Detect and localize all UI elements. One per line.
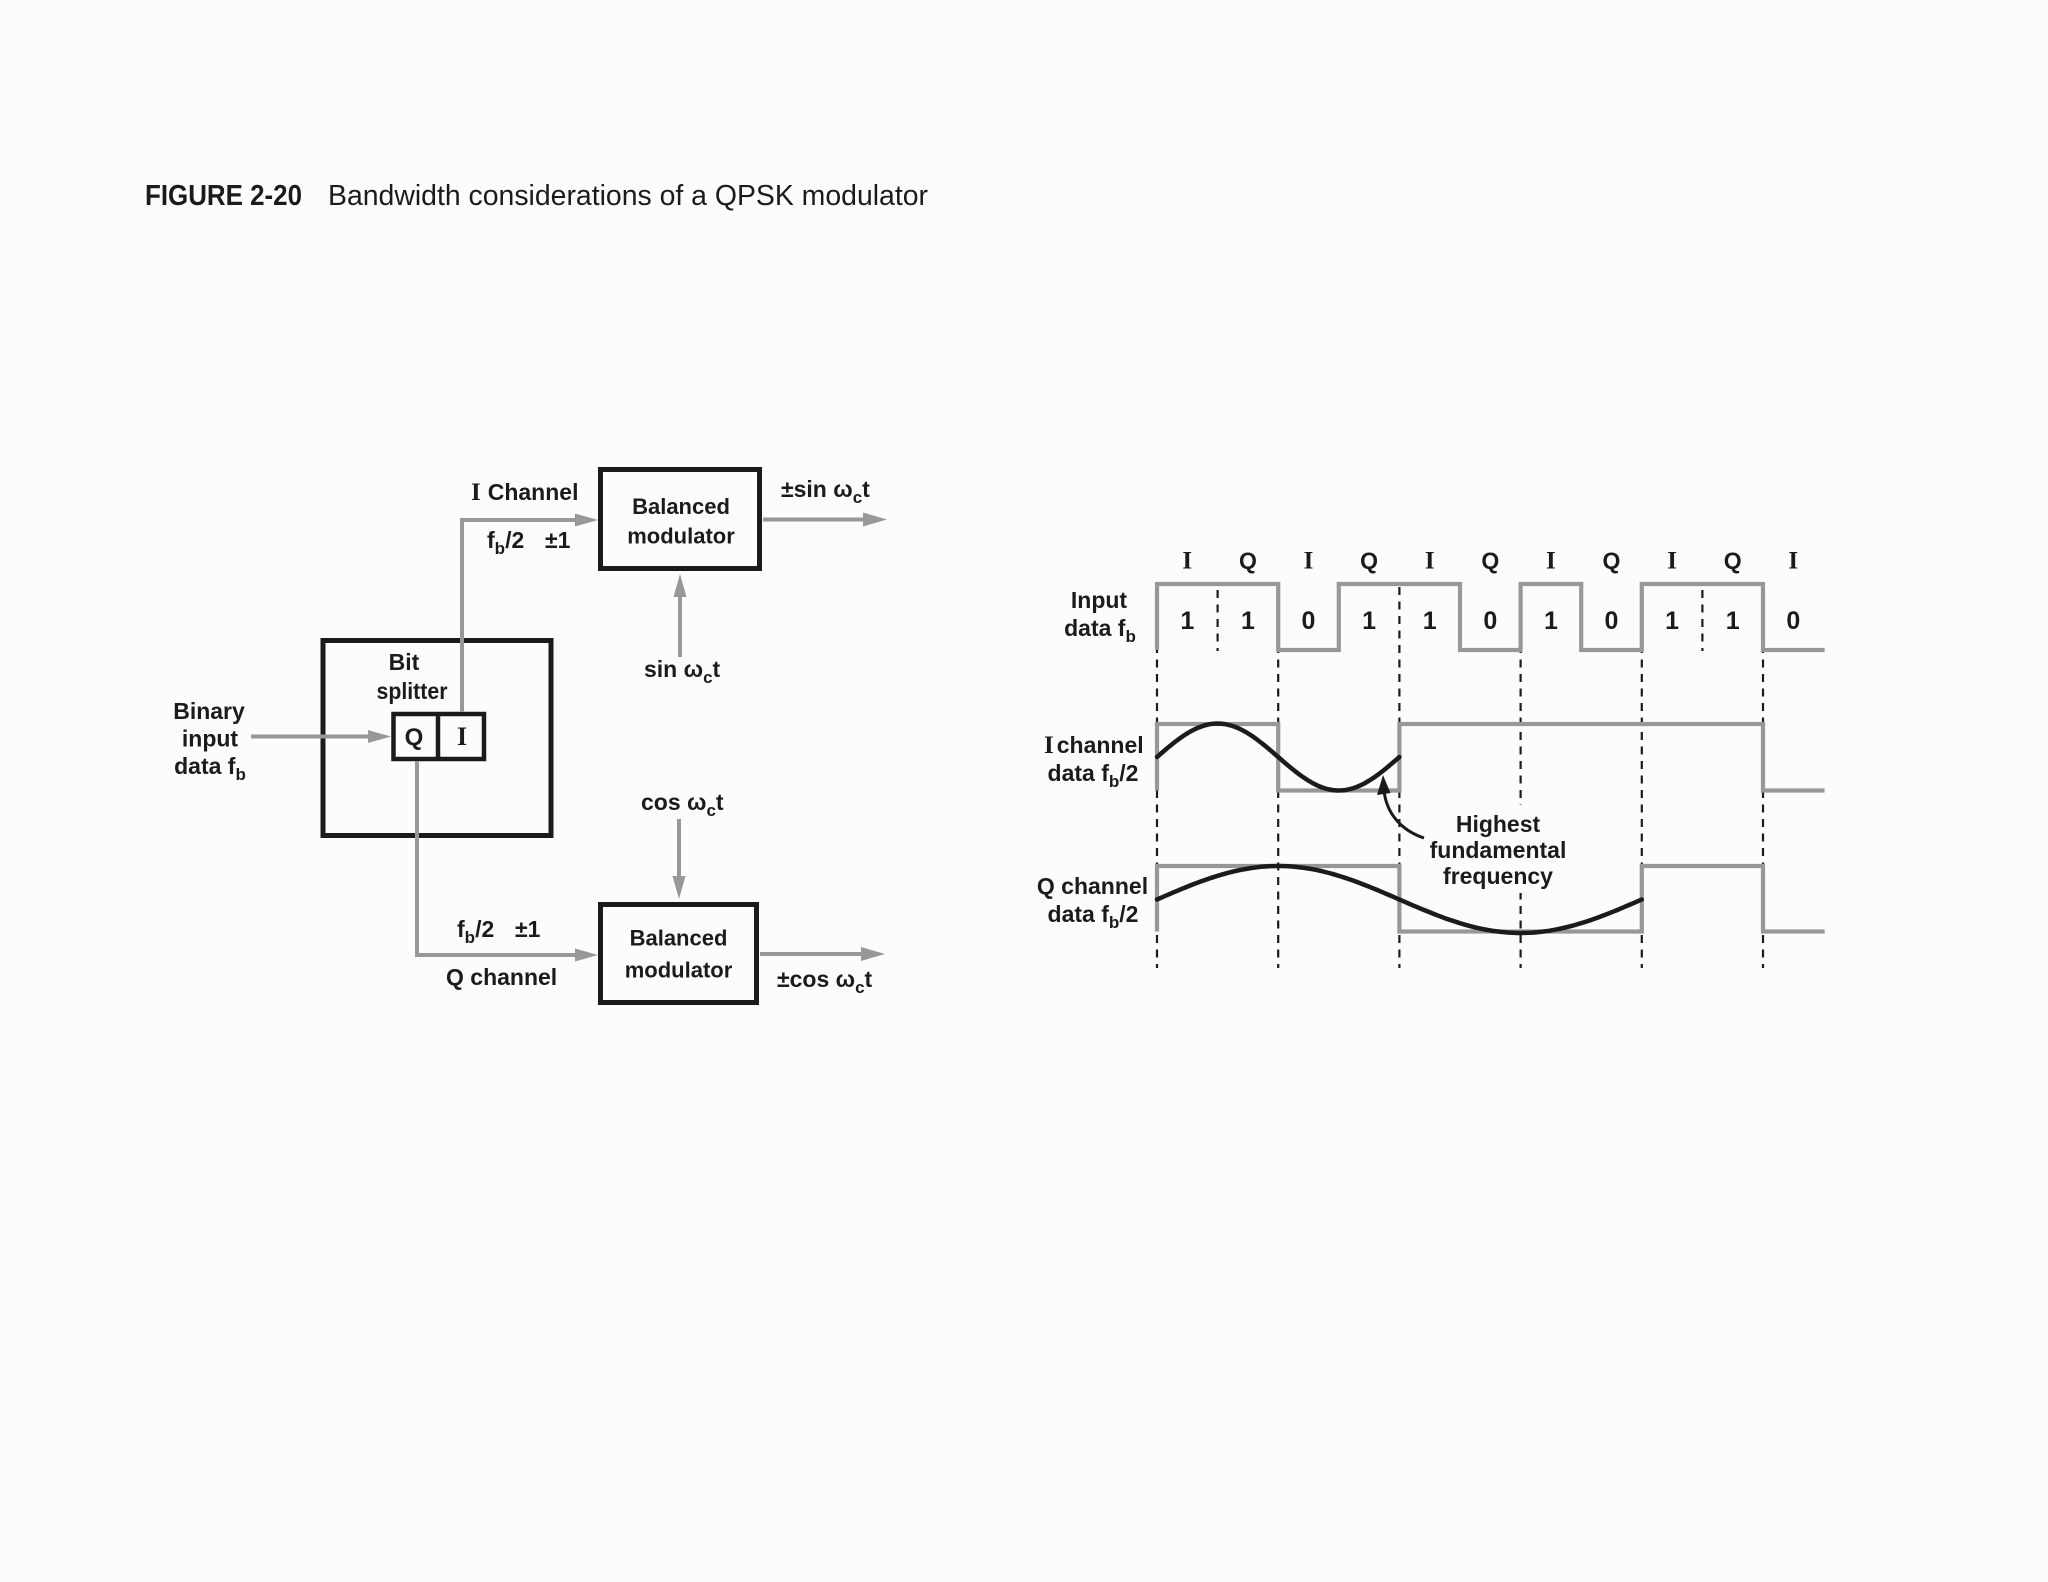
I/Q bit-slot letters xyxy=(1182,548,1798,575)
block diagram labels xyxy=(173,476,872,997)
pointer arrow to highest fundamental frequency xyxy=(1384,790,1424,838)
svg-text:I: I xyxy=(1304,548,1314,575)
svg-text:fundamental: fundamental xyxy=(1430,837,1567,863)
svg-text:I: I xyxy=(457,722,467,751)
binary input wire xyxy=(251,735,369,739)
svg-text:modulator: modulator xyxy=(625,958,733,983)
short dashed divider t9 xyxy=(1701,590,1703,651)
lower balanced modulator box U2 xyxy=(601,905,757,1003)
svg-text:1: 1 xyxy=(1362,607,1376,635)
svg-text:1: 1 xyxy=(1180,607,1194,635)
sin carrier wire xyxy=(678,593,682,657)
short dashed divider t1 xyxy=(1216,590,1218,651)
svg-text:1: 1 xyxy=(1423,607,1437,635)
dashed grid line t6 xyxy=(1519,587,1521,968)
Q channel arrowhead xyxy=(575,949,598,962)
svg-text:modulator: modulator xyxy=(627,524,735,549)
I channel fundamental sine xyxy=(1157,724,1399,791)
svg-text:Balanced: Balanced xyxy=(630,926,728,951)
Q channel fundamental sine xyxy=(1157,866,1642,933)
Q/I divider xyxy=(436,712,441,761)
svg-text:Binary: Binary xyxy=(173,698,245,724)
timing diagram row labels xyxy=(1037,587,1570,932)
svg-text:Q: Q xyxy=(1239,548,1257,574)
svg-text:Q: Q xyxy=(1603,548,1621,574)
upper output arrowhead xyxy=(863,513,887,527)
svg-text:1: 1 xyxy=(1544,607,1558,635)
svg-text:Bit: Bit xyxy=(389,649,420,675)
input data waveform xyxy=(1157,584,1825,650)
svg-text:I: I xyxy=(1788,548,1798,575)
svg-text:0: 0 xyxy=(1302,607,1316,635)
svg-text:I: I xyxy=(1425,548,1435,575)
I channel waveform xyxy=(1157,724,1825,791)
svg-text:splitter: splitter xyxy=(377,678,448,704)
dashed grid line t8 xyxy=(1641,587,1643,968)
label background mask xyxy=(1428,805,1570,893)
Q/I register box xyxy=(394,714,485,759)
svg-text:FIGURE 2-20: FIGURE 2-20 xyxy=(145,180,302,212)
svg-text:±1: ±1 xyxy=(545,527,571,553)
svg-text:Highest: Highest xyxy=(1456,811,1541,837)
svg-text:0: 0 xyxy=(1483,607,1497,635)
upper output wire xyxy=(763,518,864,522)
svg-text:frequency: frequency xyxy=(1443,863,1553,889)
svg-text:Q: Q xyxy=(1724,548,1742,574)
svg-text:Q: Q xyxy=(1481,548,1499,574)
svg-text:±1: ±1 xyxy=(515,916,541,942)
svg-text:1: 1 xyxy=(1241,607,1255,635)
lower output arrowhead xyxy=(861,947,885,961)
dashed grid line t10 xyxy=(1762,587,1764,968)
svg-text:0: 0 xyxy=(1786,607,1800,635)
svg-text:I: I xyxy=(1546,548,1556,575)
svg-text:Q channel: Q channel xyxy=(1037,873,1148,899)
svg-text:I: I xyxy=(1182,548,1192,575)
I channel wire xyxy=(462,520,575,712)
Q channel waveform xyxy=(1157,866,1825,932)
svg-text:I: I xyxy=(1667,548,1677,575)
svg-text:input: input xyxy=(182,726,239,752)
pointer arrowhead xyxy=(1377,775,1391,795)
dashed grid line t2 xyxy=(1277,587,1279,968)
svg-text:1: 1 xyxy=(1726,607,1740,635)
svg-text:IChannel: IChannel xyxy=(471,479,578,506)
svg-text:Bandwidth considerations of a: Bandwidth considerations of a QPSK modul… xyxy=(328,180,928,212)
cos carrier arrowhead xyxy=(673,876,686,899)
svg-text:1: 1 xyxy=(1665,607,1679,635)
cos carrier wire xyxy=(677,819,681,879)
svg-text:Q: Q xyxy=(405,724,424,751)
I channel arrowhead xyxy=(575,514,598,527)
svg-text:Ichannel: Ichannel xyxy=(1044,732,1144,759)
binary input arrowhead xyxy=(368,730,391,743)
svg-text:0: 0 xyxy=(1605,607,1619,635)
svg-text:Input: Input xyxy=(1071,587,1128,613)
bit value digits xyxy=(1180,607,1800,635)
upper balanced modulator box U1 xyxy=(601,470,760,569)
svg-text:Q channel: Q channel xyxy=(446,964,557,990)
Q channel wire xyxy=(417,761,575,955)
sin carrier arrowhead xyxy=(674,574,687,597)
dashed grid line t0 xyxy=(1156,587,1158,968)
svg-text:Balanced: Balanced xyxy=(632,494,730,519)
bit splitter box xyxy=(323,641,551,836)
svg-text:Q: Q xyxy=(1360,548,1378,574)
lower output wire xyxy=(760,952,862,956)
dashed grid line t4 xyxy=(1398,587,1400,968)
